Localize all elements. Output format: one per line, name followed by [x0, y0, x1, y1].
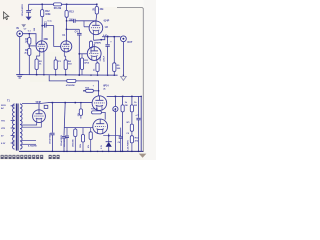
node B+ mid — [75, 102, 77, 104]
node B+ C10 — [52, 102, 54, 104]
label R4 — [68, 60, 72, 66]
svg-text:6P14: 6P14 — [103, 85, 109, 88]
label V3 half — [105, 27, 109, 29]
label C10 rotated — [49, 132, 52, 144]
label C1 — [44, 20, 53, 24]
label C11 rotated — [60, 134, 63, 146]
svg-text:R6 24k: R6 24k — [54, 7, 62, 10]
wire V4 plate up — [93, 44, 95, 47]
svg-text:1M: 1M — [25, 42, 28, 44]
node V2 plate junction — [66, 20, 68, 22]
label R5 — [92, 8, 104, 11]
resistor R13 lead — [66, 4, 68, 10]
svg-text:2W: 2W — [134, 105, 137, 107]
label heater 6.3V — [28, 145, 38, 148]
wire to OUT link — [101, 37, 120, 40]
label C4 — [75, 31, 79, 34]
resistor R9 — [113, 37, 116, 75]
ground bus mid rail — [20, 74, 118, 77]
vertical label near V1 plate — [34, 28, 36, 31]
svg-text:100uF/400V: 100uF/400V — [49, 132, 52, 144]
resistor R3 — [28, 46, 31, 56]
label R3 2k2 — [24, 50, 28, 55]
label R13 — [69, 11, 74, 14]
resistor R19 — [130, 96, 133, 124]
label R19 — [134, 102, 137, 107]
wire HT to rectifier — [22, 104, 39, 110]
wire V3 grid from left — [84, 21, 90, 27]
label C8 value (rotated) 100uF/400V — [21, 4, 24, 17]
wire OUT feed — [102, 36, 105, 38]
capacitor C8 plus lead — [29, 4, 33, 11]
resistor R2 cathode V1 — [35, 59, 38, 70]
terminal tap 5 — [1, 143, 15, 145]
label above V6 — [91, 109, 99, 111]
label R11 — [84, 60, 90, 65]
label mid 6N8P — [94, 43, 101, 45]
svg-text:220u: 220u — [100, 56, 102, 61]
svg-text:100uF/450V: 100uF/450V — [60, 134, 63, 146]
label V1 6N9P — [44, 39, 49, 41]
ground arrow bottom-right corner — [139, 154, 147, 158]
wire R12 to V1 plate — [41, 17, 43, 41]
wire R10 right — [93, 90, 99, 91]
capacitor C2 in top link — [68, 19, 75, 23]
cathode lead V1 — [37, 52, 40, 59]
label OUT1 — [127, 41, 133, 44]
wire cathode bus V3 — [94, 39, 102, 42]
wire V1 cathode2 — [43, 52, 45, 75]
wire bottom feed — [64, 127, 93, 129]
resistor R17 — [89, 128, 92, 152]
node rail-R12 — [41, 4, 43, 6]
wire rectifier heater loop 2 — [22, 122, 41, 127]
resistor R12 — [41, 10, 44, 17]
label C7 0.1 — [24, 29, 32, 33]
svg-text:2W: 2W — [34, 28, 36, 31]
resistor R1 lead — [28, 34, 30, 38]
resistor R18 — [121, 96, 124, 151]
resistor W1 upper — [130, 124, 133, 131]
label AC — [1, 107, 5, 110]
node C4-grid V4 — [79, 53, 81, 55]
capacitor C8 — [26, 11, 31, 13]
rectifier tube V7 — [33, 110, 46, 123]
wire grid node V1 — [29, 45, 36, 47]
capacitor C10 filter — [50, 103, 54, 152]
svg-text:IN: IN — [16, 27, 19, 30]
label W1 — [126, 122, 130, 135]
node V3 cathode — [101, 39, 103, 41]
resistor R11 chain — [80, 54, 83, 75]
svg-text:R20 1k: R20 1k — [91, 109, 99, 111]
label R10 title — [85, 86, 94, 90]
label C13 — [135, 115, 140, 117]
label C right of diode — [118, 142, 121, 144]
node rail dots mid — [43, 74, 124, 76]
label C12 rotated — [63, 137, 66, 147]
node R1-R3 — [29, 45, 31, 47]
svg-text:0.22uF/400V: 0.22uF/400V — [126, 139, 129, 151]
svg-text:(6N8P): (6N8P) — [94, 43, 101, 45]
label R6 24k — [54, 7, 62, 10]
label R12 — [45, 10, 51, 16]
label 1W — [69, 19, 73, 21]
capacitor C8 ground arrow — [26, 12, 32, 20]
capacitor C15 plus — [112, 110, 117, 112]
label R2 — [39, 61, 43, 66]
svg-text:AC: AC — [1, 107, 5, 110]
label R22 rotated — [78, 112, 80, 116]
wire R10 left — [83, 90, 85, 91]
page background — [0, 0, 156, 160]
node input-R1 — [29, 33, 31, 35]
capacitor C11 filter — [62, 103, 66, 152]
capacitor C4 — [77, 29, 82, 75]
node ground-R2 — [36, 74, 38, 76]
svg-text:R13: R13 — [69, 11, 74, 14]
wire C2 to V3 plate node — [75, 20, 97, 22]
wire R4 to ground — [65, 70, 67, 75]
capacitor C3 bypass — [54, 57, 57, 75]
wire B+ feed lower — [39, 103, 92, 104]
svg-text:100u/400V: 100u/400V — [63, 137, 66, 147]
label rotated 0.22uF — [126, 139, 129, 151]
wire jack sleeve to ground — [19, 37, 21, 75]
transformer T1 primary winding — [13, 104, 15, 149]
label R16 rotated — [80, 143, 82, 148]
wire C1 to V2 grid — [54, 26, 61, 47]
triode V1 — [36, 41, 47, 52]
wire diode to ground — [108, 147, 110, 152]
node rail-R13 — [66, 4, 68, 6]
label R15 rotated — [73, 139, 75, 147]
wire to C4 — [67, 28, 80, 30]
input ground arrow — [21, 24, 26, 27]
svg-text:6J4P: 6J4P — [104, 19, 110, 22]
diode D1 — [106, 142, 112, 147]
capacitor C12 — [65, 128, 69, 152]
caption text bottom — [1, 155, 60, 159]
terminal tap 4 — [1, 135, 15, 137]
wire R3 to ground — [28, 55, 30, 74]
heater wire 6.3V b — [22, 143, 36, 145]
pentode V6 — [93, 119, 108, 134]
node bus a — [115, 96, 117, 98]
label above OUT wire — [103, 34, 109, 37]
wire right edge vertical — [141, 96, 142, 152]
resistor R5 lead — [96, 4, 98, 6]
label C3 — [58, 61, 62, 63]
resistor R4 cathode V2 — [64, 60, 67, 70]
mouse cursor — [4, 12, 9, 20]
cathode lead V2 — [64, 52, 65, 60]
wire R2 to ground — [36, 70, 38, 75]
wire W1 link — [131, 131, 133, 135]
resistor R21 inline — [67, 79, 76, 82]
node rail-R5 — [96, 4, 98, 6]
transformer T1 core — [16, 104, 18, 151]
node bottom rail dots — [52, 151, 139, 152]
svg-text:470k: 470k — [84, 62, 90, 65]
wire grid V4 — [79, 53, 87, 55]
resistor R6 — [54, 3, 62, 6]
node B+ C11 — [64, 102, 66, 104]
wire OUT1 sleeve to ground — [122, 42, 124, 76]
label R9 — [117, 65, 121, 70]
ground arrow at OUT — [121, 76, 127, 80]
label V4 value rotated — [100, 56, 102, 61]
node diode top — [108, 135, 110, 137]
resistor R5 — [95, 7, 98, 15]
resistor R1 — [28, 38, 31, 45]
node V2 plate to C4 tap — [66, 29, 68, 31]
capacitor C13 near border — [136, 96, 140, 151]
svg-text:6N9: 6N9 — [44, 39, 49, 41]
triode V3 — [89, 21, 103, 35]
rectifier top cap box — [44, 105, 48, 108]
label V3 6J4P — [104, 19, 110, 22]
tube V6 plate feed — [92, 111, 106, 120]
wire to diode — [108, 134, 110, 142]
pentode V5 — [92, 96, 107, 111]
resistor R16 — [81, 128, 84, 152]
wire B+ rail mid — [62, 3, 97, 5]
label T1 — [7, 100, 10, 103]
transformer T1 secondary winding — [20, 104, 22, 149]
svg-text:100k/2W: 100k/2W — [73, 139, 75, 147]
svg-text:6.3V: 6.3V — [1, 143, 6, 145]
label C5 value rotated — [104, 55, 106, 62]
resistor R12 lead — [41, 4, 43, 9]
resistor R7 V3 cathode — [89, 40, 92, 53]
capacitor C14 — [119, 128, 123, 152]
wire y135.7 link — [103, 135, 121, 137]
svg-text:220uF: 220uF — [104, 55, 106, 62]
wire R13 to V2 plate — [66, 17, 68, 41]
connector OUT2 — [113, 96, 118, 151]
capacitor C1 — [42, 24, 54, 28]
resistor R13 — [65, 10, 68, 17]
node plate V1 coupling — [41, 25, 43, 27]
resistor R8 cathode V4 — [96, 63, 99, 75]
label V2 U1 — [62, 35, 66, 37]
wire V5 plate bus — [107, 95, 142, 97]
svg-text:4.7Ω/2W: 4.7Ω/2W — [28, 145, 38, 148]
node bus c — [131, 96, 133, 98]
wire feed below rail — [49, 75, 98, 96]
svg-text:2W: 2W — [125, 105, 128, 107]
svg-text:470Ω/2W: 470Ω/2W — [66, 84, 75, 87]
terminal tap 3 — [1, 128, 15, 130]
resistor R10 — [86, 89, 94, 92]
node ground-R4 — [65, 74, 67, 76]
svg-text:100uF/400V: 100uF/400V — [21, 4, 24, 17]
label V5 6P14 — [103, 85, 109, 91]
svg-text:OUT: OUT — [127, 41, 133, 44]
triode V4 — [87, 47, 101, 61]
node OUT wire C5 — [107, 36, 109, 38]
terminal tap 2 — [1, 120, 15, 122]
label R1 1M — [25, 39, 29, 44]
label R14 47k — [135, 137, 140, 143]
ground symbol left — [16, 75, 23, 78]
wire rectifier heater loop 1 — [22, 122, 37, 125]
node OUT wire R9 — [114, 36, 116, 38]
wire R5 to V3 plate — [95, 14, 98, 21]
capacitor C5 — [105, 37, 109, 75]
terminal AC line 1 — [1, 105, 15, 107]
svg-text:100k: 100k — [45, 13, 51, 16]
label 5Z4P — [36, 101, 42, 104]
cathode lead V3 — [93, 34, 95, 40]
label R8 value rotated — [94, 68, 96, 71]
cathode lead V4 — [96, 60, 99, 63]
svg-text:0.1u: 0.1u — [48, 20, 53, 22]
wire input to V1 grid — [23, 34, 37, 45]
connector J1 input jack — [17, 31, 23, 37]
resistor R15 — [74, 128, 77, 152]
label R18 — [125, 102, 128, 107]
node bus b — [122, 96, 124, 98]
heater wire 6.3V a — [22, 139, 36, 141]
capacitor C5 plus — [110, 41, 112, 44]
label near diode — [101, 144, 103, 149]
node ground-C4 — [79, 74, 81, 76]
ground bus bottom rail — [19, 150, 143, 152]
image frame border top-right — [117, 8, 143, 152]
connector OUT1 — [121, 36, 127, 42]
triode V2 — [61, 41, 72, 52]
resistor R14 — [130, 136, 133, 152]
resistor R22 screen — [79, 102, 82, 119]
label R21 — [66, 84, 75, 87]
label R17 rotated — [87, 144, 90, 148]
label IN — [16, 27, 19, 30]
wire B+ rail left — [29, 3, 54, 5]
